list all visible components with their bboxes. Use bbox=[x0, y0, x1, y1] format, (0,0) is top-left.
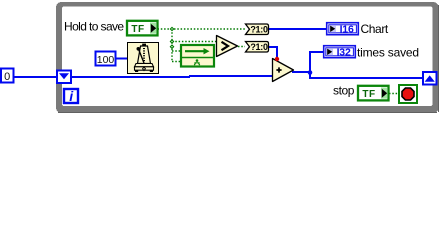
constant 0 bbox=[1, 69, 14, 84]
conditional terminal stop button bbox=[399, 85, 417, 103]
indicator I16 bbox=[327, 23, 359, 36]
constant 100 bbox=[96, 52, 116, 66]
boolean dotted wires bbox=[158, 29, 399, 94]
coercion dot bbox=[275, 57, 279, 61]
svg-text:TF: TF bbox=[362, 89, 375, 100]
indicator I32 bbox=[324, 46, 356, 59]
select2 ?1:0 bbox=[246, 42, 269, 53]
junction diamond 1 bbox=[170, 27, 175, 49]
wire: adder output to junction bbox=[292, 71, 310, 73]
wire: branch to feedback node initializer bbox=[172, 61, 181, 63]
wire: select1 to I16 Chart bbox=[268, 28, 327, 30]
svg-text:I16: I16 bbox=[340, 23, 354, 35]
select1 ?1:0 bbox=[246, 24, 269, 35]
svg-text:TF: TF bbox=[131, 24, 144, 35]
wire: TF to select1 row bbox=[158, 28, 246, 30]
metronome body bbox=[138, 46, 151, 64]
svg-text:0: 0 bbox=[4, 71, 10, 83]
boolean terminal TF (stop) bbox=[358, 86, 389, 101]
wire: junction down and right to right shift register bbox=[309, 71, 311, 79]
pendulum arm bbox=[139, 49, 145, 63]
base ornament diamond bbox=[143, 67, 146, 71]
svg-text:Hold to save: Hold to save bbox=[64, 20, 124, 34]
svg-text:?1:0: ?1:0 bbox=[250, 24, 268, 34]
wait until next ms multiple node bbox=[128, 43, 159, 74]
base front bbox=[135, 67, 154, 70]
wire: vertical branch line bbox=[171, 29, 173, 62]
svg-text:stop: stop bbox=[333, 84, 355, 98]
junction dot bbox=[308, 70, 313, 75]
svg-text:Chart: Chart bbox=[361, 22, 389, 36]
svg-text:I32: I32 bbox=[337, 46, 351, 58]
pendulum weight bbox=[137, 47, 141, 51]
svg-text:100: 100 bbox=[97, 54, 115, 66]
base top bbox=[135, 64, 154, 67]
right shift register bbox=[423, 72, 437, 85]
wire: 100 to wait node bbox=[115, 58, 128, 60]
svg-text:?1:0: ?1:0 bbox=[250, 42, 268, 52]
iteration terminal i bbox=[64, 88, 78, 104]
wire: greater output to select2 bbox=[238, 46, 245, 48]
feedback node bbox=[181, 45, 214, 67]
wire: select2 to adder top input bbox=[268, 46, 278, 48]
greater? comparator bbox=[217, 36, 238, 57]
arrow bbox=[185, 50, 204, 52]
add node bbox=[273, 57, 294, 82]
junction diamond 2 bbox=[170, 39, 175, 44]
while loop border bbox=[56, 2, 439, 113]
metronome top knob bbox=[142, 44, 146, 47]
svg-text:times saved: times saved bbox=[357, 46, 419, 60]
wire: stop TF to conditional terminal bbox=[389, 93, 398, 95]
wire: junction up to I32 bbox=[309, 51, 311, 73]
wire: 0 const to left shift register bbox=[13, 76, 58, 78]
boolean terminal TF (Hold to save) bbox=[127, 21, 158, 36]
wire: left SR to adder (long bottom-left wire with 1px jog) bbox=[71, 76, 190, 78]
wire: branch to feedback node data input bbox=[172, 50, 181, 52]
wire: feedback out to greater bottom input bbox=[213, 51, 217, 53]
feet bbox=[135, 70, 138, 72]
metronome scale dots bbox=[143, 48, 145, 61]
initializer glyph bbox=[196, 59, 199, 62]
junction diamond 3 bbox=[170, 44, 175, 49]
wire: branch to greater top input bbox=[172, 41, 216, 43]
left shift register bbox=[57, 71, 71, 84]
